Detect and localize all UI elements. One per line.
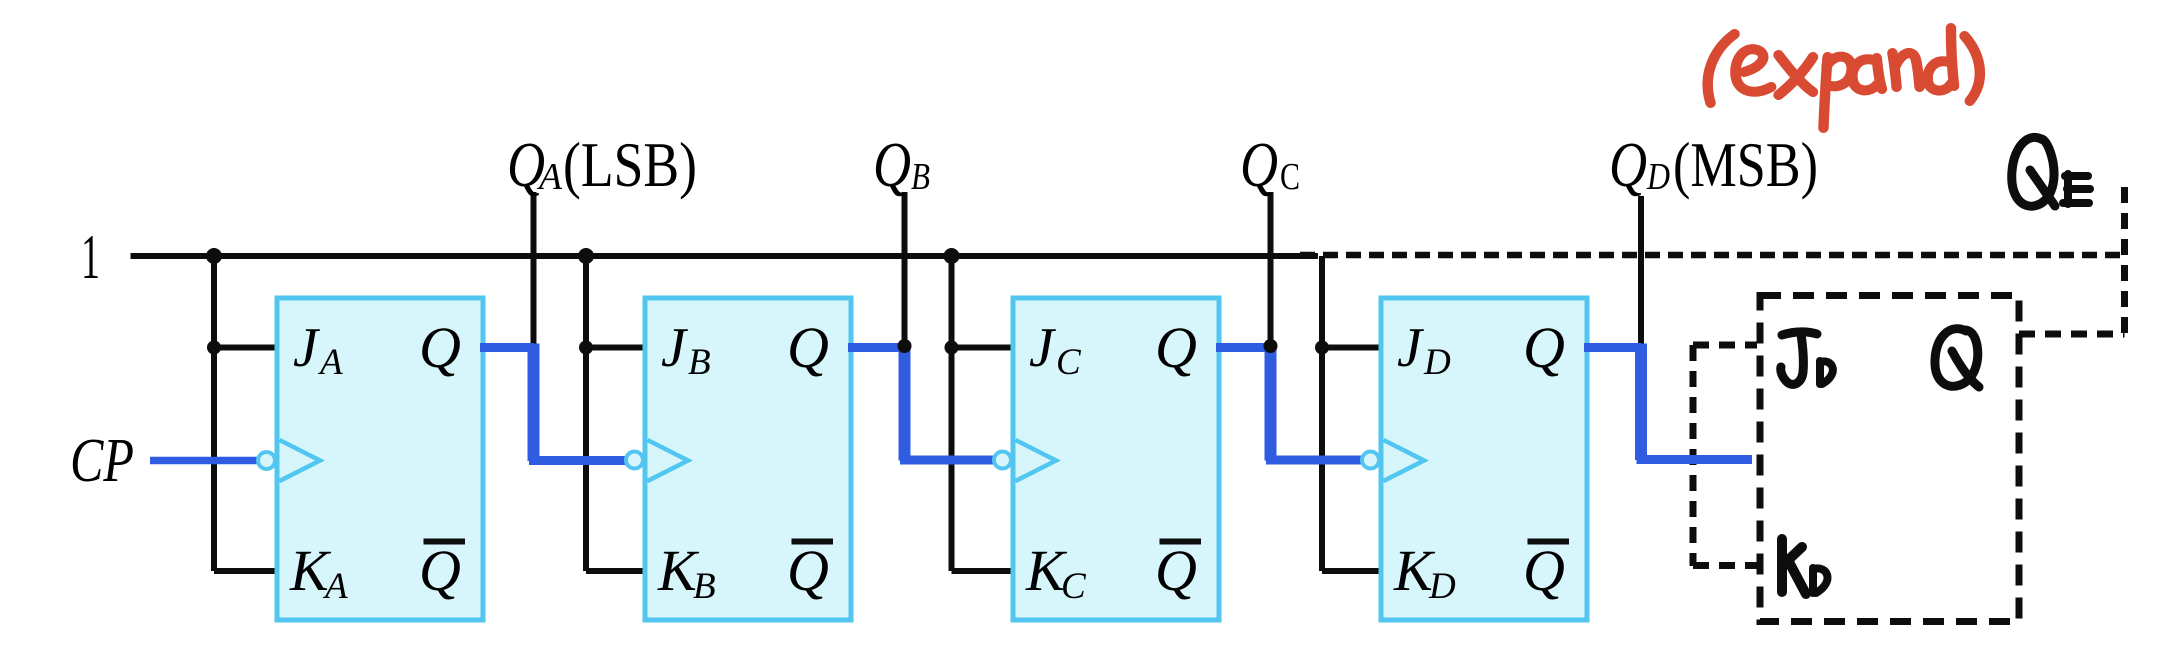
wire: bus C vertical	[949, 256, 955, 571]
label: handwritten KD in dashed box	[1782, 539, 1828, 594]
label: handwritten JD in dashed box	[1781, 332, 1833, 385]
flip-flop U3 box	[1013, 298, 1219, 620]
svg-text:Q: Q	[873, 130, 911, 200]
svg-text:Q: Q	[1523, 538, 1565, 603]
wire: dashed J/K bracket vertical	[1690, 345, 1697, 566]
wire: dashed KE stub	[1693, 562, 1757, 569]
svg-text:B: B	[693, 566, 716, 607]
label: Qbar out C	[1155, 538, 1201, 603]
clock triangle U3	[1016, 440, 1057, 481]
clock bubble U4	[1362, 452, 1379, 469]
label: JA	[293, 317, 343, 383]
clock bubble U3	[994, 452, 1011, 469]
node: junction dot bus D / JD	[1315, 341, 1329, 355]
node: dot QB tap on blue wire	[898, 339, 912, 353]
svg-text:(LSB): (LSB)	[563, 130, 697, 200]
svg-text:Q: Q	[419, 538, 461, 603]
node: junction dot bus B / JB	[579, 341, 593, 355]
label: handwritten (expand) in red	[1708, 28, 1980, 128]
node: junction dot rail/bus A	[206, 248, 222, 264]
wire: QA to clock B (blue)	[480, 344, 626, 462]
clock bubble U2	[626, 452, 643, 469]
wire: QD tap vertical	[1638, 196, 1644, 344]
flip-flop U4 box	[1381, 298, 1587, 620]
wire: bus A vertical	[211, 256, 217, 571]
wire: KA input	[214, 568, 277, 574]
svg-text:(MSB): (MSB)	[1673, 130, 1818, 200]
wire: KC input	[952, 568, 1017, 574]
label: QD(MSB)	[1609, 130, 1818, 200]
svg-text:D: D	[1428, 566, 1456, 607]
svg-text:J: J	[661, 317, 689, 379]
svg-text:Q: Q	[419, 315, 461, 380]
svg-text:B: B	[911, 156, 930, 198]
node: dot QC tap on blue wire	[1264, 339, 1278, 353]
wire: dashed QE output stub	[2019, 331, 2125, 338]
svg-text:Q: Q	[787, 315, 829, 380]
label: JD	[1397, 317, 1451, 383]
label: Qbar out D	[1523, 538, 1569, 603]
svg-text:D: D	[1423, 342, 1451, 383]
wire: logic-1 rail dashed extension	[1300, 252, 2122, 259]
label: JB	[661, 317, 711, 383]
node: junction dot rail/bus B	[578, 248, 594, 264]
label: KB	[657, 538, 716, 607]
clock triangle U1	[280, 440, 321, 481]
svg-text:CP: CP	[70, 427, 134, 495]
label: JC	[1029, 317, 1082, 383]
wire: bus B vertical	[583, 256, 589, 571]
clock bubble U1	[258, 452, 275, 469]
flip-flop U1 box	[277, 298, 483, 620]
wire: KB input	[586, 568, 648, 574]
wire: QC tap vertical	[1268, 192, 1274, 348]
label: QB	[873, 130, 930, 200]
svg-text:Q: Q	[1240, 130, 1278, 200]
wire: CP input (blue)	[150, 457, 258, 465]
clock triangle U4	[1384, 440, 1425, 481]
wire: bus D vertical	[1319, 256, 1325, 571]
node: junction dot bus A / JA	[207, 341, 221, 355]
node: junction dot rail/bus C	[944, 248, 960, 264]
svg-text:B: B	[688, 342, 711, 383]
node: junction dot bus C / JC	[945, 341, 959, 355]
wire: logic-1 rail (solid)	[131, 253, 1319, 259]
svg-text:Q: Q	[787, 538, 829, 603]
wire: JB input	[586, 345, 648, 351]
svg-text:Q: Q	[1523, 315, 1565, 380]
label: KA	[289, 538, 348, 607]
label: KD	[1393, 538, 1456, 607]
svg-text:J: J	[1397, 317, 1425, 379]
svg-text:1: 1	[81, 221, 100, 292]
clock triangle U2	[648, 440, 689, 481]
svg-text:J: J	[1029, 317, 1057, 379]
svg-text:A: A	[536, 156, 563, 198]
wire: JA input	[214, 345, 277, 351]
flip-flop U5 dashed box (hand drawn)	[1760, 296, 2019, 622]
svg-text:J: J	[293, 317, 321, 379]
svg-text:Q: Q	[1609, 130, 1647, 200]
label: Qbar out A	[419, 538, 465, 603]
wire: QB to clock C (blue)	[848, 344, 994, 461]
label: Qbar out B	[787, 538, 833, 603]
label: KC	[1025, 538, 1087, 607]
svg-text:Q: Q	[1155, 315, 1197, 380]
wire: QB tap vertical	[902, 192, 908, 348]
label: QC	[1240, 130, 1300, 200]
svg-text:C: C	[1280, 156, 1300, 198]
wire: JD input	[1322, 345, 1384, 351]
wire: dashed JE stub	[1693, 342, 1757, 349]
label: handwritten QE	[2012, 137, 2090, 206]
svg-text:D: D	[1646, 156, 1670, 198]
wire: QD to clock E (blue)	[1584, 344, 1752, 461]
wire: JC input	[952, 345, 1017, 351]
svg-text:Q: Q	[1155, 538, 1197, 603]
svg-text:C: C	[1056, 342, 1082, 383]
label: handwritten Q in dashed box	[1935, 329, 1979, 387]
svg-text:A: A	[322, 566, 348, 607]
label: QA(LSB)	[507, 130, 697, 200]
wire: KD input	[1322, 568, 1384, 574]
flip-flop U2 box	[645, 298, 851, 620]
wire: dashed QE vertical	[2121, 187, 2128, 334]
svg-text:A: A	[317, 342, 343, 383]
wire: QA tap vertical	[531, 192, 537, 344]
svg-text:C: C	[1061, 566, 1087, 607]
wire: QC to clock D (blue)	[1216, 344, 1362, 461]
